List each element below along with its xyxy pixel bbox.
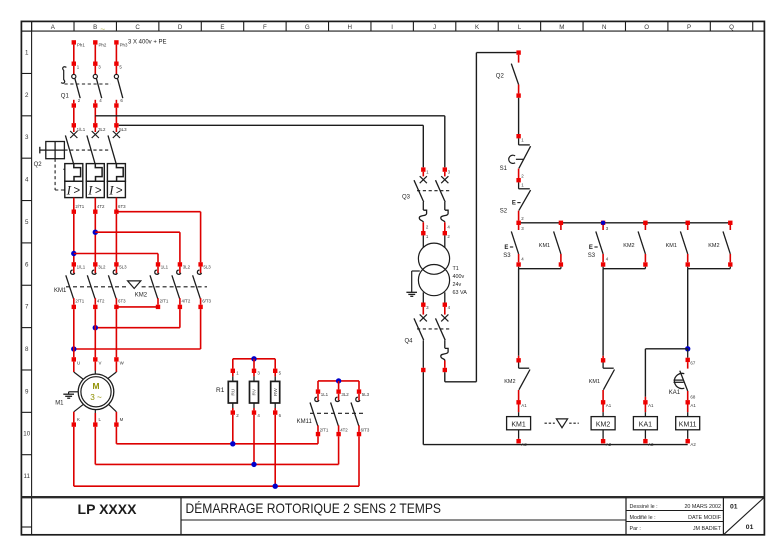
node motor W: [114, 357, 118, 361]
wire to KM11 coil: [687, 405, 689, 413]
svg-text:400v: 400v: [453, 274, 465, 280]
node motor U: [72, 357, 76, 361]
svg-text:6T3: 6T3: [118, 204, 126, 209]
resistor R1 element RV: [253, 359, 255, 369]
KM1 pole 3 (5L3-6T3): [114, 262, 118, 266]
wire R1 star bus: [233, 358, 275, 360]
svg-text:R1: R1: [216, 387, 225, 394]
svg-text:M1: M1: [55, 400, 64, 406]
svg-text:Modifié le :: Modifié le :: [630, 515, 656, 521]
node Q1 pin 5: [114, 62, 118, 66]
Q4 pole 2: [443, 303, 447, 307]
junction KA1 branch: [685, 346, 690, 351]
contact KA1 timed NO: [687, 362, 689, 369]
svg-text:4/T2: 4/T2: [182, 298, 191, 303]
wire branch3 down: [687, 269, 689, 349]
Q1 pole 2 contact: [94, 66, 96, 75]
Q2 linkage dashed vertical: [54, 159, 56, 190]
Q2 pole 1 disconnect contact: [73, 128, 75, 133]
KM11 pole 1 (1/L1-2/T1): [317, 381, 319, 390]
svg-text:E: E: [512, 201, 516, 207]
wire to KA1 coil: [645, 348, 687, 350]
title block frame: [21, 497, 764, 535]
svg-text:Q1: Q1: [61, 94, 70, 100]
wire 4T2 to KM2 3L2: [95, 231, 180, 233]
svg-text:KM11: KM11: [679, 422, 697, 429]
node Q2 out 2/T1: [72, 210, 76, 214]
node Q2 out 4T2: [93, 210, 97, 214]
node Q1 pin 3: [93, 62, 97, 66]
border frame inner lines: [21, 30, 764, 32]
svg-text:2/T1: 2/T1: [320, 427, 329, 432]
KM11 pole 3 (5L3-6T3): [358, 381, 360, 390]
wire rail B: [95, 463, 338, 465]
svg-text:2/T1: 2/T1: [75, 204, 84, 209]
svg-text:KM1: KM1: [589, 379, 600, 385]
KM1 pole 2 (3L2-4T2): [93, 262, 97, 266]
KM11 pole 2 (3L2-4T2): [338, 381, 340, 390]
svg-text:11: 11: [23, 473, 30, 480]
wire 3L2 to Q3 right pole: [95, 115, 445, 117]
svg-text:LP XXXX: LP XXXX: [78, 501, 138, 517]
svg-text:JM BADIET: JM BADIET: [693, 526, 722, 532]
svg-text:H: H: [348, 24, 352, 31]
node Ph1 supply terminal: [72, 40, 76, 44]
wire Q1 out 1: [73, 100, 75, 104]
wire KM11-4T2 to rail B: [338, 436, 340, 464]
KM2 pole 2 (3L2-4T2): [178, 262, 182, 266]
svg-text:3L2: 3L2: [341, 392, 349, 397]
svg-text:67: 67: [690, 360, 695, 365]
wire R1-4 to rail B: [253, 415, 255, 465]
wire KM11 coil to A2: [687, 430, 689, 439]
svg-text:5L3: 5L3: [119, 127, 127, 132]
svg-text:68: 68: [690, 394, 695, 399]
contact KM1 aux NO: [560, 225, 562, 230]
svg-text:5L3: 5L3: [203, 265, 211, 270]
svg-text:4T2: 4T2: [340, 427, 348, 432]
svg-text:E: E: [504, 245, 508, 251]
transformer T1 secondary lead 4: [444, 292, 446, 302]
wire Q2 to S1: [518, 98, 520, 134]
Q3 pole 1: [421, 167, 425, 171]
node bus KM2 branch: [643, 221, 647, 225]
svg-text:O: O: [644, 24, 649, 31]
node S1 pin 1: [516, 134, 520, 138]
contact KM2b aux NO: [729, 225, 731, 230]
wire V column to motor: [94, 309, 96, 357]
Q2 pole 2 disconnect contact: [94, 128, 96, 133]
wire KM1-6T3 to KM2-2T1: [116, 306, 158, 308]
node KA1 A1: [643, 400, 647, 404]
svg-text:A1: A1: [648, 403, 654, 408]
svg-text:A2: A2: [606, 442, 612, 447]
wire branch1 down: [518, 269, 520, 356]
wire R1-6 to rail C: [274, 415, 276, 486]
wire KM11-6T3 to rail C: [358, 436, 360, 486]
contact KM2 aux NO: [644, 225, 646, 230]
junction R1 star: [251, 356, 256, 361]
Q2 pole 2 thermal-magnetic boxes: [86, 164, 104, 182]
svg-text:RW: RW: [273, 388, 279, 396]
coil KA1: [633, 417, 657, 430]
svg-text:01: 01: [746, 524, 754, 531]
node motor V: [93, 357, 97, 361]
wire control 0V rail: [423, 444, 687, 446]
svg-text:6T3: 6T3: [118, 298, 126, 303]
Q3 pole 2: [443, 167, 447, 171]
svg-text:A2: A2: [521, 442, 527, 447]
wire rail A: [116, 443, 318, 445]
svg-text:9: 9: [25, 388, 29, 395]
svg-text:KM2: KM2: [708, 243, 719, 249]
svg-text:KM2: KM2: [135, 292, 148, 298]
svg-text:5L3: 5L3: [119, 265, 127, 270]
svg-text:D: D: [178, 24, 183, 31]
node bus S3b junction: [601, 221, 605, 225]
svg-text:2/T1: 2/T1: [75, 298, 84, 303]
node Q1 pin 1: [72, 62, 76, 66]
transformer T1 primary lead 2: [444, 235, 446, 247]
svg-text:Q2: Q2: [496, 73, 505, 79]
svg-text:Q3: Q3: [402, 194, 411, 200]
pushbutton S1 (NC mushroom): [518, 138, 520, 145]
svg-text:G: G: [305, 24, 310, 31]
Q2 actuator box: [46, 142, 65, 159]
node S2 pin 2 bus: [516, 221, 520, 225]
node KA1 pin 68 / KM11 A1: [686, 400, 690, 404]
node S1 top: [516, 93, 520, 97]
coil KM11: [676, 417, 700, 430]
svg-text:T1: T1: [453, 266, 459, 272]
node bus KM2b branch: [728, 221, 732, 225]
wire join pair 1: [518, 267, 520, 269]
svg-text:1L1: 1L1: [161, 265, 169, 270]
svg-text:M: M: [120, 417, 124, 422]
svg-text:I: I: [108, 182, 114, 197]
node KM2 A1: [601, 400, 605, 404]
svg-text:24v: 24v: [453, 282, 462, 288]
svg-text:2/T1: 2/T1: [160, 298, 169, 303]
transformer T1 secondary lead 3: [422, 292, 424, 302]
wire Q1 out 2: [94, 100, 96, 104]
svg-text:7: 7: [25, 304, 29, 311]
Q3 linkage dashed: [417, 190, 450, 192]
wire Ph3 drop to Q1: [115, 45, 117, 62]
svg-text:L: L: [518, 24, 522, 31]
wire Ph1 drop to Q1: [73, 45, 75, 62]
svg-text:E: E: [589, 245, 593, 251]
wire KM11-2T1 to rail A: [317, 436, 319, 444]
wire phase3 column: [115, 214, 117, 262]
wire U column to motor: [73, 309, 75, 357]
wire Q2 box to node 1: [73, 198, 75, 210]
transformer T1 windings: [418, 243, 449, 274]
svg-text:3: 3: [25, 134, 29, 141]
node Ph3 supply terminal: [114, 40, 118, 44]
svg-text:S3: S3: [503, 253, 511, 259]
node motor M: [114, 422, 118, 426]
svg-text:>: >: [116, 185, 123, 197]
wire to KM2 coil: [602, 405, 604, 413]
svg-text:J: J: [433, 24, 436, 31]
svg-text:3 ~: 3 ~: [90, 393, 102, 402]
junction R1-2 rail A: [230, 441, 235, 446]
svg-text:KM2: KM2: [504, 379, 515, 385]
svg-text:63 VA: 63 VA: [453, 290, 468, 296]
svg-text:M: M: [559, 24, 564, 31]
node S1 pin 2 / S2 pin 1: [516, 178, 520, 182]
svg-text:I: I: [391, 24, 393, 31]
Q2 control switch: [518, 55, 520, 63]
node KM11 A2: [686, 439, 690, 443]
node Q2 in 3L2: [93, 123, 97, 127]
interlock triangle dashed: [545, 422, 555, 424]
svg-text:A1: A1: [690, 403, 696, 408]
svg-text:DATE MODIF: DATE MODIF: [688, 515, 722, 521]
node Ph2 supply terminal: [93, 40, 97, 44]
svg-text:A1: A1: [521, 403, 527, 408]
svg-text:RV: RV: [252, 388, 258, 395]
wire M to rail A: [115, 427, 117, 444]
svg-text:A2: A2: [690, 442, 696, 447]
grid column dividers: [32, 21, 753, 31]
wire to KM1 coil: [518, 405, 520, 413]
svg-text:4: 4: [25, 177, 29, 184]
wire Q4 out up to Q2: [444, 372, 446, 382]
svg-text:10: 10: [23, 431, 30, 438]
wire KA1 coil to A2: [644, 430, 646, 439]
svg-text:C: C: [135, 24, 140, 31]
wire KM2 coil to A2: [602, 430, 604, 439]
Q1 pole 1 contact: [73, 66, 75, 75]
Q1 pole 3 contact: [115, 66, 117, 75]
svg-text:1L1: 1L1: [321, 392, 329, 397]
svg-text:4T2: 4T2: [97, 204, 105, 209]
svg-text:Par :: Par :: [630, 526, 641, 532]
wire motor lead K: [74, 404, 84, 412]
transformer T1 primary lead 1: [422, 235, 424, 247]
Q1 trip curve symbol: [61, 67, 66, 83]
node Q2 in 5L3: [114, 123, 118, 127]
node bus KM1b branch: [686, 221, 690, 225]
node Q2 out 6T3: [114, 210, 118, 214]
svg-text:F: F: [263, 24, 267, 31]
svg-text:3L2: 3L2: [98, 127, 106, 132]
node motor L: [93, 422, 97, 426]
svg-text:8: 8: [25, 346, 29, 353]
grid row dividers: [21, 31, 31, 527]
svg-text:I: I: [66, 182, 72, 197]
node motor K: [72, 422, 76, 426]
junction KM11 star: [336, 378, 341, 383]
svg-text:3L2: 3L2: [98, 265, 106, 270]
wire branch2 down: [602, 269, 604, 356]
Q2 pole 1 thermal-magnetic boxes: [65, 164, 83, 182]
svg-text:3 X 400v + PE: 3 X 400v + PE: [128, 40, 167, 46]
svg-text:5: 5: [25, 219, 29, 226]
KM1 pole 1 (1/L1-2/T1): [72, 262, 76, 266]
svg-text:Ph3: Ph3: [120, 42, 128, 47]
wire phase1 column: [73, 214, 75, 262]
KM1 KM2 linkage dashed: [66, 286, 127, 288]
node KM1 A2: [516, 439, 520, 443]
wire motor lead M: [108, 404, 116, 412]
wire Q1 out 3: [115, 100, 117, 104]
coil KM1: [507, 417, 531, 430]
wire Q2 box to node 3: [115, 198, 117, 210]
junction U phase: [71, 346, 76, 351]
wire motor lead U: [73, 362, 75, 372]
svg-text:6/T3: 6/T3: [361, 427, 370, 432]
wire 5L3 to Q3 left pole: [119, 124, 424, 126]
wire Ph2 drop to Q1: [94, 45, 96, 62]
wire rail C: [74, 485, 359, 487]
wire L to rail B: [94, 427, 96, 465]
svg-text:KM2: KM2: [623, 243, 634, 249]
wire motor lead L: [94, 410, 96, 413]
KM11 linkage dashed: [310, 412, 365, 414]
junction phase2: [93, 230, 98, 235]
KM2 pole 1 (1/L1-2/T1): [156, 262, 160, 266]
svg-text:A1: A1: [606, 403, 612, 408]
pushbutton S3b (NO): [602, 225, 604, 230]
Q2 pole 3 disconnect contact: [115, 128, 117, 133]
junction phase1: [71, 251, 76, 256]
svg-text:1: 1: [25, 49, 29, 56]
node Q1 out 4: [93, 103, 97, 107]
grid row numbers 1-11: [23, 49, 30, 480]
node KM2 A2: [601, 439, 605, 443]
svg-text:KA1: KA1: [639, 422, 652, 429]
wire join pair 3: [687, 267, 689, 269]
svg-text:Q2: Q2: [34, 162, 43, 168]
svg-text:1/L1: 1/L1: [77, 265, 86, 270]
contact KM1b aux NO: [687, 225, 689, 230]
wire 2T1 to KM2 1L1: [74, 253, 158, 255]
svg-text:P: P: [687, 24, 691, 31]
svg-text:M: M: [93, 381, 100, 391]
svg-text:KM1: KM1: [666, 243, 677, 249]
resistor R1 element RW: [274, 359, 276, 369]
svg-text:6/T3: 6/T3: [202, 298, 211, 303]
wire control bus: [519, 222, 731, 224]
svg-text:S1: S1: [500, 166, 508, 172]
wire R1-2 to rail A: [232, 415, 234, 444]
motor ground: [69, 391, 79, 393]
node Q2 in 1/L1: [72, 123, 76, 127]
pushbutton S3a (NO): [518, 225, 520, 230]
svg-text:Ph2: Ph2: [99, 42, 107, 47]
node KA1 pin 67: [686, 358, 690, 362]
node Q2 control top: [516, 50, 520, 54]
svg-text:~: ~: [100, 24, 105, 34]
wire motor lead V: [94, 362, 96, 371]
grid column letters A-Q: [51, 24, 734, 31]
svg-text:K: K: [77, 417, 80, 422]
svg-text:KM1: KM1: [54, 288, 67, 294]
node KA1 A2: [643, 439, 647, 443]
wire KM1 coil to A2: [518, 430, 520, 439]
svg-text:Q: Q: [729, 24, 734, 31]
wire phase2 column: [94, 214, 96, 262]
svg-text:U: U: [77, 360, 80, 365]
wire KM2-4T2 down-left: [179, 309, 181, 328]
Q4 linkage dashed: [417, 328, 450, 330]
svg-text:DÉMARRAGE ROTORIQUE 2 SENS 2: DÉMARRAGE ROTORIQUE 2 SENS 2 TEMPS: [186, 500, 442, 516]
motor M1 circle: [78, 374, 114, 410]
contact KM2 NC interlock: [516, 358, 520, 362]
svg-text:1/L1: 1/L1: [77, 127, 86, 132]
svg-text:3L2: 3L2: [183, 265, 191, 270]
svg-text:Ph1: Ph1: [77, 42, 85, 47]
junction V phase: [93, 325, 98, 330]
wire Q4 out to 0V rail: [422, 372, 424, 444]
svg-text:20 MARS 2002: 20 MARS 2002: [684, 504, 721, 510]
Q2 linkage dashed horizontal: [64, 149, 110, 151]
svg-text:>: >: [95, 185, 102, 197]
coil KM2: [591, 417, 615, 430]
svg-text:KM11: KM11: [297, 419, 313, 425]
node Q1 out 6: [114, 103, 118, 107]
wire join pair 2: [602, 267, 604, 269]
junction R1-4 rail B: [251, 462, 256, 467]
svg-text:E: E: [220, 24, 224, 31]
Q4 pole 1: [421, 303, 425, 307]
svg-text:KM1: KM1: [511, 422, 526, 429]
svg-text:5L3: 5L3: [362, 392, 370, 397]
svg-text:I: I: [87, 182, 93, 197]
svg-text:2: 2: [25, 92, 29, 99]
svg-text:4T2: 4T2: [97, 298, 105, 303]
wire K to rail C: [73, 427, 75, 486]
wire motor lead W: [115, 362, 117, 372]
svg-text:6: 6: [25, 261, 29, 268]
resistor R1 element RU: [232, 359, 234, 369]
wire Q2 box to node 2: [94, 198, 96, 210]
svg-text:A2: A2: [648, 442, 654, 447]
svg-text:>: >: [73, 185, 80, 197]
node bus KM1 branch: [559, 221, 563, 225]
svg-text:RU: RU: [230, 388, 236, 395]
svg-text:KM2: KM2: [596, 422, 611, 429]
svg-text:Q4: Q4: [405, 339, 414, 345]
svg-text:KM1: KM1: [539, 243, 550, 249]
transformer ground: [412, 270, 420, 272]
contact KM1 NC interlock: [601, 358, 605, 362]
wire 6T3 to KM2 5L3: [116, 211, 200, 213]
pushbutton S2 (NC): [518, 182, 520, 188]
svg-text:01: 01: [730, 504, 738, 511]
wire W column to motor: [115, 309, 117, 357]
wire KM11 star bus: [318, 380, 359, 382]
svg-text:S2: S2: [500, 208, 508, 214]
svg-text:Dessiné le :: Dessiné le :: [630, 504, 658, 510]
svg-text:B: B: [93, 24, 97, 31]
Q2 pole 3 thermal-magnetic boxes: [107, 164, 125, 182]
svg-text:N: N: [602, 24, 606, 31]
KM2 pole 3 (5L3-6T3): [198, 262, 202, 266]
svg-text:S3: S3: [588, 253, 596, 259]
svg-text:V: V: [99, 360, 102, 365]
node KM1 A1: [516, 400, 520, 404]
wire to KA1 contact: [687, 349, 689, 358]
svg-text:KA1: KA1: [669, 390, 681, 396]
wire KM2-6T3 down-left: [200, 309, 202, 349]
junction R1-6 rail C: [273, 484, 278, 489]
KM2 interlock triangle: [128, 281, 141, 289]
wire to KA1 coil 2: [644, 405, 646, 413]
